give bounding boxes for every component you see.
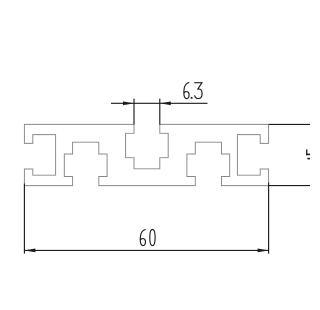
aluminum extrusion profile outline (60x15, T-slots) [24,124,268,185]
dimension 60 : right extension line [268,183,270,254]
text 6.3 : decimal point [191,97,193,99]
dimension 60 : left extension line [23,184,25,254]
dimension 6.3 : right extension line [159,99,161,125]
dimension 6.3 : dimension line [111,102,208,104]
dimension 6.3 : left extension line [133,99,135,125]
dimension 60 : right arrowhead [258,249,269,253]
dimension 6.3 : left arrowhead [123,101,134,105]
dimension 60 : dimension line [24,249,268,251]
right-side dimension text fragment (clipped digit) [306,149,310,159]
right-side dimension : top extension line [269,123,310,125]
text 60 (stick CAD font) [140,230,155,246]
dimension 6.3 : right arrowhead [160,101,171,105]
dimension 60 : left arrowhead [24,249,35,253]
text 6.3 (stick CAD font) [184,83,202,99]
right-side dimension : bottom extension line [269,185,310,187]
